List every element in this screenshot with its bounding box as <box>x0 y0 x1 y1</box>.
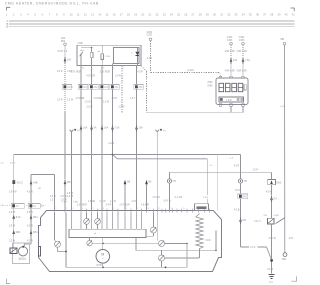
bus line 15 <box>9 26 295 28</box>
interior bottom wire y267.3 <box>66 266 187 268</box>
svg-text:34: 34 <box>242 13 245 17</box>
wire x102 connector to fuse <box>101 89 103 125</box>
switch S2 x31 <box>30 180 33 184</box>
svg-text:2.5 W: 2.5 W <box>100 201 107 203</box>
sensor circle H5 <box>169 172 171 179</box>
svg-text:A4B: A4B <box>33 181 38 184</box>
svg-text:C-1 GR: C-1 GR <box>175 197 183 199</box>
svg-text:A-201: A-201 <box>188 69 195 72</box>
svg-text:8: 8 <box>126 208 127 210</box>
wire x112.5 connector to fuse <box>112 89 114 125</box>
wire x271.5 below relay <box>271 224 273 274</box>
svg-text:DBS: DBS <box>277 182 282 184</box>
wire x81 box to connector <box>80 66 82 85</box>
svg-text:10/50: 10/50 <box>67 87 73 89</box>
svg-text:(7/8): (7/8) <box>78 41 83 45</box>
display pins top <box>219 76 221 78</box>
svg-text:4.5R 1.5R: 4.5R 1.5R <box>225 51 236 53</box>
wire x102 box to connector <box>101 66 103 85</box>
relay blade to lamp wire <box>276 218 285 224</box>
junction dot x271.5 y260.3 <box>270 259 273 262</box>
svg-text:7.5A: 7.5A <box>115 127 120 130</box>
svg-text:2.5 W: 2.5 W <box>27 212 34 214</box>
svg-text:10A: 10A <box>83 127 88 130</box>
svg-text:B4S: B4S <box>243 197 248 199</box>
interior wire y250.3 <box>136 249 216 251</box>
svg-text:11: 11 <box>77 13 80 17</box>
svg-text:27: 27 <box>191 13 194 17</box>
wire x112.5 box to connector <box>112 66 114 85</box>
svg-text:1.5 W: 1.5 W <box>67 99 74 101</box>
svg-text:C303: C303 <box>227 40 233 42</box>
svg-text:2.5Y W: 2.5Y W <box>269 238 277 240</box>
lamp circle x284.5 <box>283 253 287 257</box>
switch S1 x13.7 <box>12 180 15 184</box>
connector eyelet x284.5 <box>283 42 286 45</box>
svg-text:29: 29 <box>206 13 209 17</box>
switch circle R3 interior <box>161 250 163 255</box>
display unit 7500 box <box>216 78 248 105</box>
svg-text:30: 30 <box>213 13 216 17</box>
wire x240.5 to fuse <box>240 199 242 218</box>
svg-text:2.1 R: 2.1 R <box>203 197 209 199</box>
svg-text:2.5 W: 2.5 W <box>9 225 16 227</box>
junction dot in 7/8 <box>91 47 93 49</box>
svg-text:1.5R: 1.5R <box>62 202 67 204</box>
svg-text:(a): (a) <box>163 130 166 132</box>
wire x217 <box>216 155 218 211</box>
svg-text:A19 C: A19 C <box>17 181 24 184</box>
wire x65 down to switch row <box>64 89 66 112</box>
fuse x13.7 row1 <box>12 215 15 219</box>
fuse x231 <box>230 58 233 62</box>
svg-text:A65: A65 <box>139 86 144 89</box>
svg-text:1 8 8: 1 8 8 <box>226 99 232 102</box>
svg-text:24: 24 <box>170 13 173 17</box>
svg-text:A63: A63 <box>104 86 109 89</box>
svg-text:4.5 R: 4.5 R <box>234 166 240 168</box>
svg-text:9: 9 <box>138 208 139 210</box>
svg-text:1.5 R: 1.5 R <box>112 98 118 100</box>
svg-text:1.4 W: 1.4 W <box>110 201 117 203</box>
svg-text:MB: MB <box>281 39 285 41</box>
svg-text:4.5R 4.5R: 4.5R 4.5R <box>237 70 248 72</box>
dashed wire x150.5 down <box>150 41 152 73</box>
svg-text:10A: 10A <box>67 58 72 61</box>
switch circle below bar <box>89 238 91 241</box>
svg-text:CMD HEATER, ENERGV/MODE DILL,: CMD HEATER, ENERGV/MODE DILL, PH-CAB <box>5 2 99 6</box>
interior verticals right <box>186 244 188 268</box>
motor M 6053 <box>102 238 104 250</box>
svg-text:2-5-R: 2-5-R <box>250 247 256 249</box>
wire x240.5 to y247 <box>240 224 242 247</box>
svg-text:11: 11 <box>158 208 160 210</box>
svg-text:2.5 W: 2.5 W <box>9 241 16 243</box>
interior wire y258 <box>165 257 200 259</box>
plug symbol x157.3 <box>156 130 159 132</box>
stub pin 4 in 7/8 <box>112 64 114 66</box>
svg-text:1.5 R: 1.5 R <box>253 169 259 171</box>
svg-text:6053: 6053 <box>97 263 104 267</box>
dashed wire x122 from box <box>121 66 123 113</box>
svg-text:4.5R 1.5R: 4.5R 1.5R <box>237 51 248 53</box>
dashed wire from 7/8 corner <box>141 66 147 72</box>
svg-text:6100: 6100 <box>206 239 212 242</box>
svg-text:4.5Y GR: 4.5Y GR <box>86 75 95 77</box>
wire x65 fuse to connector <box>64 63 66 84</box>
svg-text:7: 7 <box>114 208 115 210</box>
dotted wire x243 upper <box>242 45 244 57</box>
wire x31 to buzzer top <box>24 236 31 246</box>
wire x13.7 down from y155 <box>13 155 15 249</box>
svg-text:15A: 15A <box>139 127 144 130</box>
wire x136.5 fuse down to module <box>136 131 138 210</box>
switch circle R1 interior <box>153 213 155 227</box>
svg-text:a≠w: a≠w <box>80 49 84 52</box>
svg-text:2: 2 <box>66 208 67 210</box>
svg-text:1.5 GR: 1.5 GR <box>88 201 96 203</box>
connector row C303 <box>78 85 88 90</box>
svg-text:~: ~ <box>102 256 104 260</box>
svg-text:5A: 5A <box>94 127 97 130</box>
svg-text:1.5R: 1.5R <box>73 202 78 204</box>
fuse x31 row2 <box>30 230 33 234</box>
svg-text:2.5 R: 2.5 R <box>115 75 121 77</box>
svg-text:1.5 R: 1.5 R <box>235 190 241 192</box>
ground symbol x271.5 <box>268 274 274 276</box>
svg-text:C303: C303 <box>227 37 233 39</box>
svg-text:A61: A61 <box>83 86 88 89</box>
svg-text:38: 38 <box>270 13 273 17</box>
svg-text:A-N 1: A-N 1 <box>147 57 154 60</box>
heater resistor zigzag <box>196 214 203 249</box>
svg-text:2.5Y W: 2.5Y W <box>9 192 17 194</box>
column number row <box>6 13 296 17</box>
svg-text:1: 1 <box>56 208 57 210</box>
svg-text:37: 37 <box>263 13 266 17</box>
wire x271.5 below fusebox <box>271 185 273 196</box>
wire x91.5 connector to fuse <box>91 89 93 125</box>
svg-text:12: 12 <box>171 208 173 210</box>
svg-text:2.5 R: 2.5 R <box>57 71 63 73</box>
interior wire y243.4 left <box>92 242 158 244</box>
svg-text:5: 5 <box>93 208 94 210</box>
svg-text:2-4 R: 2-4 R <box>106 204 112 206</box>
frame corner bracket top-left <box>7 7 11 10</box>
wire x240.5 down from y155 <box>240 155 242 179</box>
bus line 30 <box>9 20 295 22</box>
dotted wire x231 lower <box>230 64 232 77</box>
svg-text:M61: M61 <box>33 216 38 219</box>
svg-text:1.5 BGR: 1.5 BGR <box>76 98 85 100</box>
dashed drop to display pin <box>219 73 222 77</box>
connector C10/50 at x65 <box>62 85 72 90</box>
long wire x284.5 down <box>284 45 286 253</box>
zigzag bottom wire <box>199 249 201 259</box>
page ref corner bottom right <box>291 276 296 281</box>
svg-text:2.5Y BGR: 2.5Y BGR <box>100 72 111 74</box>
connector x240.5 <box>238 194 248 199</box>
svg-text:10A: 10A <box>233 59 238 62</box>
wire x91.5 fuse down to module <box>91 131 93 210</box>
relay box K1 <box>268 218 274 224</box>
svg-text:10A: 10A <box>104 127 109 130</box>
svg-text:31: 31 <box>220 13 223 17</box>
diode D1 in 7/8 <box>135 52 139 55</box>
switch circle left <box>54 213 56 241</box>
svg-text:32: 32 <box>227 13 230 17</box>
destination arrow x125 <box>124 180 127 184</box>
svg-text:A62: A62 <box>94 86 99 89</box>
wire display middle pin down to link <box>230 106 232 112</box>
svg-text:C303: C303 <box>239 40 245 42</box>
wire switch to junction <box>58 247 67 251</box>
svg-text:1.5 R: 1.5 R <box>132 201 138 203</box>
wire display pin down to link <box>242 106 244 112</box>
link wire y112.3 <box>147 111 244 113</box>
svg-text:10: 10 <box>148 208 150 210</box>
wire x71.5 down to module <box>71 131 73 210</box>
wire y172.3 horizontal <box>170 171 272 173</box>
svg-text:28: 28 <box>199 13 202 17</box>
connector eyelet x231 <box>230 42 233 45</box>
wire x65 circle to fuse <box>64 46 66 57</box>
long wire y155 <box>14 154 241 156</box>
resistor R1 <box>90 52 93 57</box>
svg-text:26: 26 <box>184 13 187 17</box>
fuse row mid <box>80 125 83 129</box>
dotted wire x243 lower <box>242 64 244 77</box>
dotted wire x231 upper <box>230 45 232 57</box>
svg-text:1.5 BGR: 1.5 BGR <box>94 98 103 100</box>
display digits <box>219 83 224 91</box>
bar resistor block <box>69 229 146 237</box>
svg-text:1.5 W: 1.5 W <box>67 196 74 198</box>
svg-text:C303: C303 <box>239 37 245 39</box>
wire x112.5 fuse down to module <box>112 131 114 210</box>
svg-text:-R R: -R R <box>288 238 293 240</box>
svg-text:20: 20 <box>141 13 144 17</box>
svg-text:10: 10 <box>70 13 73 17</box>
svg-text:7500: 7500 <box>207 84 213 87</box>
svg-text:23: 23 <box>163 13 166 17</box>
connector eyelet x150.5 <box>149 38 152 41</box>
svg-text:2.5 W: 2.5 W <box>267 269 274 271</box>
svg-text:39: 39 <box>277 13 280 17</box>
dashes around connector row <box>2 205 10 207</box>
fuse F1 10A <box>64 57 67 61</box>
svg-text:1.5 Y: 1.5 Y <box>130 98 136 100</box>
wire x271.5 to relay <box>271 202 273 218</box>
svg-text:A-2 B: A-2 B <box>234 208 240 211</box>
svg-text:14: 14 <box>98 13 101 17</box>
wire resistor R2 top <box>101 45 103 54</box>
resistor R2 <box>101 54 104 60</box>
svg-text:4.5 R: 4.5 R <box>50 196 56 198</box>
svg-text:C303: C303 <box>147 35 153 37</box>
wire x31 down <box>30 175 32 245</box>
svg-text:35: 35 <box>249 13 252 17</box>
wire x136.5 connector to fuse <box>136 89 138 125</box>
svg-text:2-4 R: 2-4 R <box>109 143 115 145</box>
display button bar <box>219 97 244 102</box>
horn connector block <box>10 248 17 253</box>
module 6050 outline <box>39 211 222 272</box>
svg-text:4.5 R: 4.5 R <box>10 163 16 165</box>
svg-text:2.5 R 1.5: 2.5 R 1.5 <box>58 50 68 53</box>
plug on module top <box>195 204 209 211</box>
wire x240.5 to connector <box>240 183 242 194</box>
svg-text:22: 22 <box>156 13 159 17</box>
display pins bottom <box>219 104 221 106</box>
pin numbers <box>56 208 196 210</box>
wire x157.3 down to module <box>156 131 158 210</box>
svg-text:41: 41 <box>292 13 295 17</box>
wire diode to box bottom <box>136 56 138 66</box>
plug symbol x71.5 <box>70 130 73 132</box>
svg-text:4: 4 <box>82 208 83 210</box>
wire x136.5 box to connector <box>136 66 138 85</box>
wire x81 fuse down to module <box>80 131 82 210</box>
svg-text:36: 36 <box>256 13 259 17</box>
svg-text:4.5 W: 4.5 W <box>27 241 34 243</box>
connector x31 <box>28 204 40 209</box>
svg-text:4.5 A3R: 4.5 A3R <box>141 203 149 206</box>
fuse x31 row1 <box>30 215 33 219</box>
svg-text:A64: A64 <box>115 86 120 89</box>
svg-text:2.5 W: 2.5 W <box>9 212 16 214</box>
svg-text:13: 13 <box>183 208 185 210</box>
svg-text:M61: M61 <box>16 231 21 234</box>
svg-text:18: 18 <box>127 13 130 17</box>
branch wire jog to plug <box>113 155 208 159</box>
bridge wire y174.5 <box>31 174 55 176</box>
svg-text:B04: B04 <box>61 40 66 43</box>
dashed wire y72.5 to display <box>151 72 220 74</box>
svg-text:25: 25 <box>177 13 180 17</box>
svg-text:NB4: NB4 <box>282 259 287 261</box>
svg-text:M61: M61 <box>33 231 38 234</box>
wire R2 bottom <box>101 60 103 66</box>
horn 6054 frame <box>13 243 30 264</box>
unit inner sub-box <box>114 48 140 64</box>
svg-text:(3): (3) <box>40 205 43 208</box>
svg-text:6054: 6054 <box>19 257 26 261</box>
svg-text:140 0 1: 140 0 1 <box>254 221 262 223</box>
svg-text:3: 3 <box>73 208 74 210</box>
wire x54.5 down <box>54 175 56 211</box>
svg-text:6: 6 <box>103 208 104 210</box>
horn 6054 circle <box>18 247 27 256</box>
unit box 7/8 outline <box>77 45 141 65</box>
svg-text:(a): (a) <box>77 130 80 132</box>
svg-text:5.0Y W: 5.0Y W <box>164 200 172 202</box>
switch circle SW2 <box>86 213 88 219</box>
svg-text:4.5 GR: 4.5 GR <box>153 197 161 199</box>
svg-text:40: 40 <box>285 13 288 17</box>
svg-text:19: 19 <box>134 13 137 17</box>
wire x102 fuse down to module <box>101 131 103 210</box>
wire x91.5 box to connector <box>91 66 93 85</box>
svg-text:2.5 R: 2.5 R <box>57 99 63 101</box>
svg-text:15: 15 <box>105 13 108 17</box>
wire x65 to module pin <box>64 186 66 211</box>
wire x146.5 to module <box>146 184 148 211</box>
diagonal wire to junction dot <box>267 247 272 260</box>
svg-text:2.5Y BGR: 2.5Y BGR <box>77 204 87 206</box>
display digit small cell <box>244 85 246 90</box>
svg-text:4.5 W: 4.5 W <box>27 192 34 194</box>
svg-text:2.5 W: 2.5 W <box>87 107 94 109</box>
wire R1 bottom <box>91 58 93 66</box>
module left tab <box>39 247 41 257</box>
destination arrow x146.5 <box>145 180 148 184</box>
svg-text:1.5 W: 1.5 W <box>103 102 110 104</box>
svg-text:7.5A: 7.5A <box>245 59 250 62</box>
sensor circle H8 <box>238 179 242 183</box>
svg-text:1.5 W: 1.5 W <box>85 102 92 104</box>
svg-text:4.5 W: 4.5 W <box>27 225 34 227</box>
wire x169.5 to module <box>169 183 171 211</box>
wire x81 connector to fuse <box>80 89 82 125</box>
ground mark bottom-left <box>7 279 11 284</box>
connector x13.7 <box>11 204 24 209</box>
svg-text:4.5 R: 4.5 R <box>137 72 143 74</box>
svg-text:13: 13 <box>91 13 94 17</box>
bar input wires <box>71 213 73 230</box>
interior wire y243.5 <box>165 243 188 245</box>
svg-text:17: 17 <box>120 13 123 17</box>
svg-text:4.5R 4.5R: 4.5R 4.5R <box>225 70 236 72</box>
svg-text:8.3A: 8.3A <box>16 216 21 219</box>
bus line 75 <box>9 23 295 25</box>
fuse x13.7 row2 <box>12 230 15 234</box>
wire y247 to relay chain <box>241 246 250 248</box>
dashed wire x146.5 down <box>146 71 148 112</box>
fuse x240.5 <box>239 218 242 222</box>
svg-text:C303: C303 <box>147 32 153 34</box>
svg-text:12: 12 <box>84 13 87 17</box>
wire resistor R1 top <box>91 48 93 53</box>
svg-text:2.5Y BGR: 2.5Y BGR <box>71 72 82 74</box>
svg-text:2.5 W: 2.5 W <box>67 193 74 195</box>
switch circle SW3 <box>97 213 99 219</box>
svg-text:16: 16 <box>113 13 116 17</box>
fusebox x271.5 <box>271 172 273 179</box>
fuse x271.5 <box>270 196 273 200</box>
connector eyelet at x65 <box>64 43 67 46</box>
svg-text:2.5Y BGR: 2.5Y BGR <box>120 204 130 206</box>
svg-text:4.5 W: 4.5 W <box>266 191 273 193</box>
svg-text:33: 33 <box>234 13 237 17</box>
fuse x243 <box>242 58 245 62</box>
junction dot x112.5 y155 <box>112 154 114 156</box>
module pin ticks <box>55 209 210 213</box>
fuse at x65 mid <box>64 180 67 184</box>
switch contact inside 7/8 <box>80 54 82 66</box>
connector eyelet x243 <box>242 42 245 45</box>
wire x125 to module <box>124 184 126 211</box>
wire x66 interior <box>65 213 67 268</box>
svg-text:21: 21 <box>148 13 151 17</box>
frame corner bracket top-right <box>291 8 295 11</box>
vertical x216 interior <box>215 231 217 251</box>
switch circle R2 interior <box>159 241 165 247</box>
